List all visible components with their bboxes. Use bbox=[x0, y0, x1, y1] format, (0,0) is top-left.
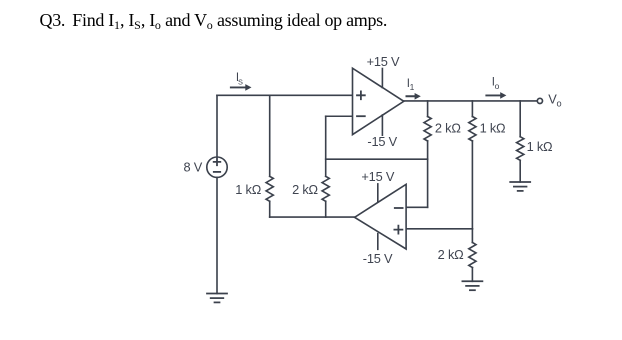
svg-text:+15 V: +15 V bbox=[367, 54, 400, 69]
svg-text:IS: IS bbox=[236, 72, 243, 86]
svg-text:-15 V: -15 V bbox=[367, 134, 397, 149]
svg-text:1 kΩ: 1 kΩ bbox=[235, 182, 261, 197]
svg-text:1 kΩ: 1 kΩ bbox=[480, 120, 506, 135]
svg-text:Vo: Vo bbox=[548, 91, 561, 108]
svg-text:-15 V: -15 V bbox=[363, 251, 393, 266]
svg-text:I1: I1 bbox=[407, 78, 415, 92]
svg-text:8 V: 8 V bbox=[183, 160, 202, 175]
svg-text:Io: Io bbox=[492, 77, 500, 91]
svg-text:+15 V: +15 V bbox=[361, 169, 394, 184]
svg-text:1 kΩ: 1 kΩ bbox=[527, 139, 553, 154]
svg-text:2 kΩ: 2 kΩ bbox=[292, 182, 318, 197]
svg-text:2 kΩ: 2 kΩ bbox=[438, 247, 464, 262]
svg-text:2 kΩ: 2 kΩ bbox=[435, 120, 461, 135]
